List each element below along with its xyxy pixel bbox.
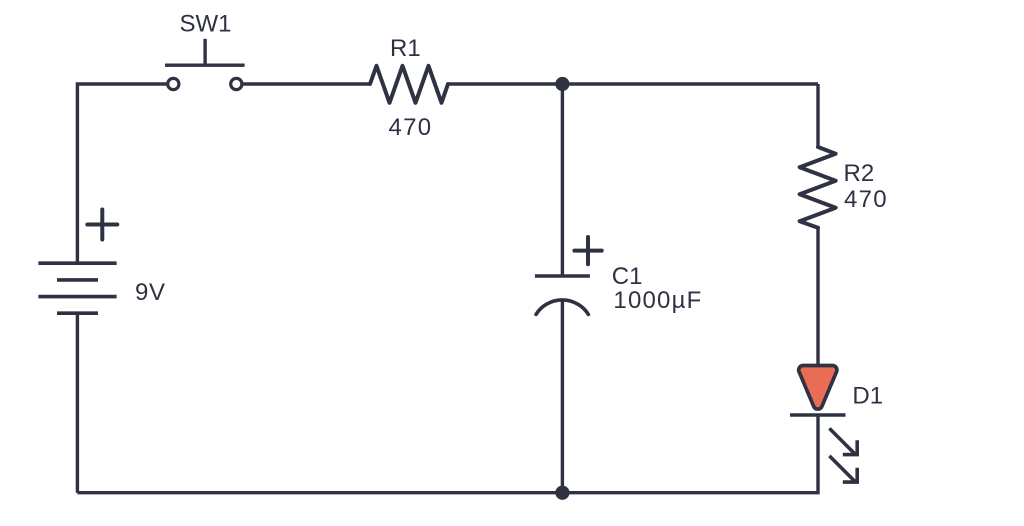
svg-text:9V: 9V xyxy=(135,279,166,306)
wire: left vertical from top-left corner down to battery top xyxy=(77,84,166,263)
node: junction at bottom of capacitor branch xyxy=(555,486,569,500)
resistor R1 xyxy=(370,66,448,103)
wire: switch to R1 xyxy=(243,82,370,85)
wire: top-right corner down to R2 xyxy=(816,84,819,147)
wire: capacitor bottom to bottom node xyxy=(561,300,564,493)
svg-text:470: 470 xyxy=(389,114,433,141)
node: junction at top of capacitor branch xyxy=(555,77,569,91)
svg-text:D1: D1 xyxy=(852,382,883,409)
LED light arrow 2 xyxy=(829,456,856,483)
svg-text:SW1: SW1 xyxy=(180,11,232,38)
wire: top node to capacitor top plate xyxy=(561,84,564,276)
svg-text:R2: R2 xyxy=(844,160,875,187)
wire: battery bottom to bottom-left corner xyxy=(76,313,79,493)
svg-text:C1: C1 xyxy=(612,263,643,290)
switch SW1 xyxy=(165,39,245,90)
LED D1 xyxy=(790,366,857,483)
battery 9V xyxy=(38,210,117,314)
svg-text:1000µF: 1000µF xyxy=(613,287,702,314)
svg-text:R1: R1 xyxy=(390,35,421,62)
wire: LED cathode to bottom-right corner then bottom wire to left xyxy=(77,415,818,493)
wire: R2 to LED anode xyxy=(816,228,819,366)
resistor R2 xyxy=(800,147,836,228)
wire: R1 to top-right corner through node xyxy=(448,82,818,85)
LED light arrow 1 xyxy=(829,428,856,455)
capacitor C1 xyxy=(535,237,602,314)
svg-text:470: 470 xyxy=(844,186,888,213)
